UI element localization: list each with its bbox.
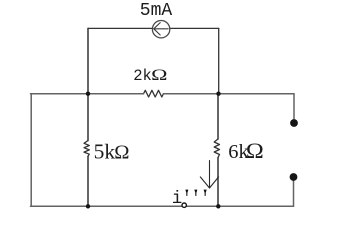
svg-text:i: i	[172, 189, 183, 209]
svg-text:Ω: Ω	[114, 142, 129, 164]
svg-text:5k: 5k	[94, 140, 116, 164]
svg-text:Ω: Ω	[246, 139, 264, 164]
svg-text:2k: 2k	[133, 67, 152, 85]
svg-text:5mA: 5mA	[140, 1, 173, 21]
svg-text:Ω: Ω	[151, 67, 167, 84]
